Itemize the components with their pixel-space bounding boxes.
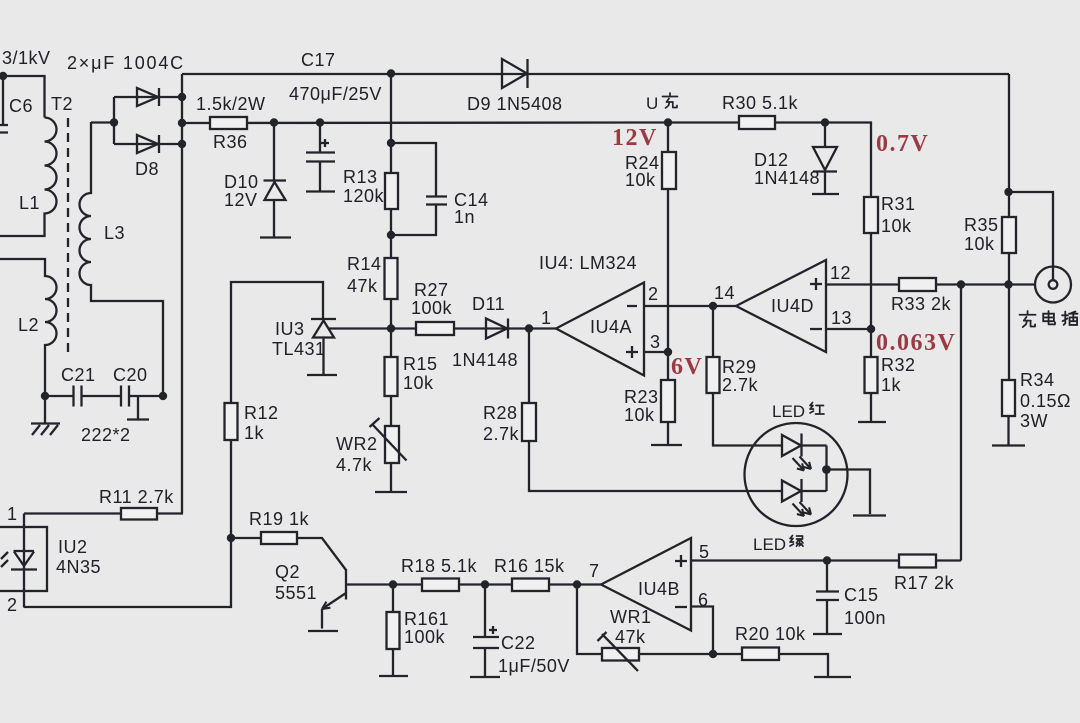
wire pin3 line: [644, 351, 668, 353]
svg-text:D12: D12: [754, 150, 789, 170]
node D10 tap: [270, 118, 278, 126]
svg-text:1k: 1k: [244, 423, 265, 443]
node C15 tap: [823, 556, 831, 564]
capacitor C14 loop: [391, 143, 447, 235]
resistor R35: [1002, 217, 1016, 253]
svg-text:R20 10k: R20 10k: [735, 624, 806, 644]
resistor R29: [707, 357, 720, 393]
node TL431 ref: [387, 324, 395, 332]
capacitor C22: [470, 585, 500, 678]
node C14 top: [387, 139, 395, 147]
LED green: [782, 479, 827, 502]
wire R13 divider vertical: [390, 74, 392, 329]
resistor R161: [392, 585, 394, 613]
svg-text:R30 5.1k: R30 5.1k: [722, 93, 799, 113]
transformer core T2: [67, 118, 69, 356]
svg-text:1N4148: 1N4148: [754, 168, 820, 188]
svg-text:6: 6: [698, 590, 709, 610]
svg-text:47k: 47k: [615, 627, 646, 647]
svg-text:R27: R27: [414, 280, 449, 300]
wire U-chg vertical: [667, 123, 669, 353]
svg-text:LED: LED: [772, 402, 805, 421]
wire bridge anodes: [91, 97, 114, 144]
resistor R16: [512, 579, 549, 592]
resistor R32: [870, 329, 872, 357]
resistor R11: [121, 508, 157, 520]
wire connector branch: [1009, 192, 1054, 280]
svg-text:4.7k: 4.7k: [336, 455, 373, 475]
svg-text:R13: R13: [343, 167, 378, 187]
svg-text:5: 5: [699, 542, 710, 562]
node A top-left: [0, 72, 7, 80]
svg-text:R12: R12: [244, 403, 279, 423]
node R33 right: [957, 280, 965, 288]
svg-text:10k: 10k: [624, 405, 655, 425]
wire top-left AC input: [0, 76, 45, 118]
svg-text:R32: R32: [881, 355, 916, 375]
svg-text:6V: 6V: [671, 354, 703, 380]
diode D11: [486, 319, 508, 339]
inductor L2: [0, 259, 57, 396]
svg-text:C21: C21: [61, 365, 96, 385]
svg-text:1k: 1k: [881, 375, 902, 395]
wire TL431 loop: [231, 282, 323, 403]
node R35 bottom: [1004, 280, 1012, 288]
node pin3: [664, 348, 672, 356]
wire R19 to Q2 base: [297, 538, 346, 570]
wire D8 bottom diode branch: [114, 143, 182, 145]
svg-text:13: 13: [831, 308, 852, 328]
svg-text:R35: R35: [964, 215, 999, 235]
optocoupler LED: [11, 514, 37, 608]
svg-text:1: 1: [541, 308, 552, 328]
svg-text:IU3: IU3: [275, 319, 305, 339]
svg-text:100k: 100k: [411, 298, 453, 318]
wire 12V rail: [182, 121, 668, 124]
svg-text:R34: R34: [1020, 370, 1055, 390]
node bridge left: [110, 118, 118, 126]
svg-text:TL431: TL431: [272, 339, 326, 359]
svg-text:10k: 10k: [625, 170, 656, 190]
node L2 bottom: [41, 392, 49, 400]
svg-text:120k: 120k: [343, 186, 385, 206]
svg-text:3/1kV: 3/1kV: [2, 48, 51, 68]
wire top rail: [182, 73, 1009, 75]
wire R11 to bridge: [157, 512, 183, 514]
svg-text:2×μF 1004C: 2×μF 1004C: [67, 53, 185, 73]
op-amp IU4A: [556, 283, 644, 376]
svg-text:5551: 5551: [275, 583, 317, 603]
svg-text:10k: 10k: [881, 216, 912, 236]
resistor R33: [899, 278, 936, 291]
wire R12 to pin2: [24, 440, 231, 607]
svg-text:2.7k: 2.7k: [722, 375, 759, 395]
svg-text:D10: D10: [224, 172, 259, 192]
svg-text:2: 2: [648, 284, 659, 304]
wire R28 branch: [528, 329, 530, 404]
svg-text:R15: R15: [403, 354, 438, 374]
LED red arrows: [793, 457, 812, 471]
diode D12: [812, 123, 839, 195]
resistor R19: [261, 532, 297, 544]
wire R19 line: [231, 537, 261, 539]
diode D9: [502, 59, 528, 88]
resistor R17: [899, 555, 936, 568]
terminal stub near C20: [127, 396, 149, 420]
wire pin2 line: [644, 305, 736, 307]
diode D8b: [137, 135, 159, 153]
svg-text:R14: R14: [347, 254, 382, 274]
svg-text:3W: 3W: [1020, 411, 1048, 431]
wire D8 top diode branch: [114, 96, 182, 98]
svg-text:2: 2: [7, 595, 18, 615]
resistor R13: [385, 173, 398, 209]
connector plug: [1035, 267, 1071, 303]
svg-text:0.15Ω: 0.15Ω: [1020, 391, 1071, 411]
wire LED cathodes: [825, 446, 827, 492]
svg-text:LED: LED: [753, 535, 786, 554]
svg-text:4N35: 4N35: [56, 557, 101, 577]
diode D8a: [137, 88, 159, 106]
svg-text:U: U: [646, 94, 658, 113]
wire WR1 line: [577, 585, 713, 655]
svg-text:222*2: 222*2: [81, 425, 131, 445]
svg-text:12: 12: [830, 263, 851, 283]
svg-text:R19 1k: R19 1k: [249, 509, 310, 529]
resistor R15: [390, 329, 392, 358]
svg-text:IU4D: IU4D: [771, 296, 814, 316]
wire TL431 ref line: [329, 327, 556, 329]
svg-text:0.063V: 0.063V: [876, 330, 956, 356]
svg-text:D8: D8: [135, 159, 159, 179]
svg-text:L1: L1: [19, 193, 40, 213]
TL431 IU3: [307, 319, 337, 375]
transistor Q2: [322, 569, 393, 609]
node connector branch: [1004, 188, 1012, 196]
svg-text:10k: 10k: [964, 234, 995, 254]
node C17 tap: [316, 118, 324, 126]
svg-text:L2: L2: [18, 315, 39, 335]
node U-chg: [664, 118, 672, 126]
svg-text:C22: C22: [501, 633, 536, 653]
LED indicator circle: [745, 423, 848, 526]
svg-text:R17 2k: R17 2k: [894, 573, 955, 593]
svg-text:IU4: LM324: IU4: LM324: [539, 253, 637, 273]
node pin6 R20: [709, 650, 717, 658]
inductor L1: [0, 118, 57, 237]
node D12 tap: [821, 118, 829, 126]
svg-text:100n: 100n: [844, 608, 886, 628]
wire R17 up to R33: [960, 285, 962, 561]
wire C21 C20 line: [45, 395, 163, 397]
node pin7: [573, 580, 581, 588]
capacitor C6: [0, 76, 8, 133]
potentiometer WR2: [390, 396, 392, 426]
svg-text:Q2: Q2: [275, 562, 300, 582]
node bridge out top: [178, 93, 186, 101]
wire LED to terminal: [827, 470, 887, 516]
svg-text:WR2: WR2: [336, 434, 378, 454]
wire bridge output vertical: [181, 74, 183, 514]
resistor R31: [864, 197, 878, 233]
node pin13: [867, 325, 875, 333]
svg-text:7: 7: [589, 561, 600, 581]
potentiometer WR1: [602, 648, 639, 661]
resistor R24: [662, 152, 676, 189]
capacitor C20: [121, 386, 129, 407]
resistor R14: [385, 258, 398, 299]
wire pin5 line: [691, 559, 961, 561]
svg-text:0.7V: 0.7V: [876, 131, 929, 157]
resistor R23: [667, 352, 669, 380]
svg-text:10k: 10k: [403, 373, 434, 393]
svg-text:R16 15k: R16 15k: [494, 556, 565, 576]
node top rail R13: [387, 69, 395, 77]
wire pin6 to WR1: [691, 607, 713, 655]
svg-text:WR1: WR1: [610, 607, 652, 627]
node C22 tap: [481, 580, 489, 588]
svg-text:R28: R28: [483, 403, 518, 423]
svg-text:2.7k: 2.7k: [483, 424, 520, 444]
svg-text:12V: 12V: [612, 125, 658, 151]
resistor R34: [1002, 380, 1015, 416]
wire pin13 line: [826, 328, 871, 330]
optocoupler arrows: [1, 552, 8, 567]
LED red: [782, 434, 827, 457]
label connector name: [1020, 311, 1036, 327]
node C14 bottom: [387, 231, 395, 239]
wire R20 to ground: [779, 654, 851, 677]
resistor R18: [422, 579, 459, 592]
resistor R27: [416, 322, 454, 335]
svg-text:12V: 12V: [224, 190, 258, 210]
svg-text:C15: C15: [844, 585, 879, 605]
node R19 tap: [227, 534, 235, 542]
node R29 tap: [709, 302, 717, 310]
wire right vertical: [1008, 74, 1010, 380]
zener D10: [260, 123, 291, 238]
svg-text:R161: R161: [404, 609, 449, 629]
resistor R20: [742, 648, 779, 661]
wire R30 rail: [668, 123, 871, 330]
svg-text:C17: C17: [301, 50, 336, 70]
svg-text:R23: R23: [624, 387, 659, 407]
wire R29 to LED: [712, 306, 714, 357]
wire R28 to green LED: [529, 441, 782, 491]
svg-text:R11 2.7k: R11 2.7k: [99, 487, 174, 507]
node pin1: [525, 324, 533, 332]
svg-text:R29: R29: [722, 357, 757, 377]
node Q2 collector: [389, 580, 397, 588]
svg-text:1n: 1n: [454, 207, 475, 227]
svg-text:3: 3: [650, 332, 661, 352]
optocoupler IU2 box: [0, 527, 47, 591]
svg-text:1N4148: 1N4148: [452, 350, 518, 370]
svg-text:D9 1N5408: D9 1N5408: [467, 94, 563, 114]
svg-text:IU2: IU2: [58, 537, 88, 557]
resistor R12: [225, 403, 238, 440]
wire R20 line: [713, 653, 742, 655]
svg-text:R33 2k: R33 2k: [891, 294, 952, 314]
op-amp IU4B: [601, 538, 691, 631]
svg-text:1: 1: [7, 504, 18, 524]
svg-text:R36: R36: [213, 132, 248, 152]
node LED cathode: [822, 465, 831, 474]
svg-text:C6: C6: [9, 96, 33, 116]
node bridge out bottom: [178, 140, 186, 148]
node bridge out mid: [178, 119, 186, 127]
svg-text:1.5k/2W: 1.5k/2W: [196, 94, 266, 114]
inductor L3: [80, 122, 164, 396]
capacitor C21: [74, 386, 82, 407]
capacitor C15: [813, 561, 842, 635]
svg-text:IU4A: IU4A: [590, 317, 632, 337]
capacitor C17: [306, 123, 335, 192]
resistor R28: [522, 403, 536, 441]
node C20 right: [159, 392, 167, 400]
resistor R36: [210, 117, 247, 129]
LED green arrows: [793, 502, 812, 516]
svg-text:D11: D11: [472, 294, 505, 314]
svg-text:IU4B: IU4B: [638, 579, 680, 599]
wire pin12 line: [826, 283, 1036, 285]
svg-text:470μF/25V: 470μF/25V: [289, 84, 382, 104]
svg-text:14: 14: [714, 283, 735, 303]
ground L2: [31, 396, 60, 435]
op-amp IU4D: [736, 260, 826, 352]
svg-text:T2: T2: [51, 94, 73, 114]
svg-text:C20: C20: [113, 365, 148, 385]
wire pin1 to R11: [24, 512, 121, 514]
resistor R30: [739, 116, 775, 129]
svg-text:100k: 100k: [404, 627, 446, 647]
wire bottom amp input line: [393, 583, 601, 585]
svg-text:L3: L3: [104, 223, 125, 243]
svg-text:R18 5.1k: R18 5.1k: [401, 556, 478, 576]
svg-text:1μF/50V: 1μF/50V: [498, 656, 570, 676]
svg-text:R31: R31: [881, 194, 916, 214]
svg-text:47k: 47k: [347, 276, 378, 296]
